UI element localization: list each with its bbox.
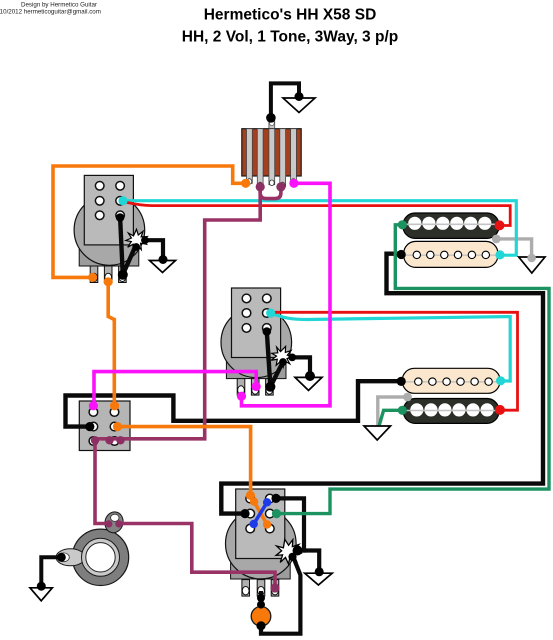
svg-text:Hermetico's HH X58 SD: Hermetico's HH X58 SD	[204, 7, 377, 24]
svg-text:Design by Hermetico Guitar: Design by Hermetico Guitar	[21, 2, 97, 9]
svg-text:©10/2012 hermeticoguitar@gmail: ©10/2012 hermeticoguitar@gmail.com	[0, 9, 101, 16]
svg-text:HH, 2 Vol, 1 Tone, 3Way, 3 p/p: HH, 2 Vol, 1 Tone, 3Way, 3 p/p	[182, 29, 398, 46]
